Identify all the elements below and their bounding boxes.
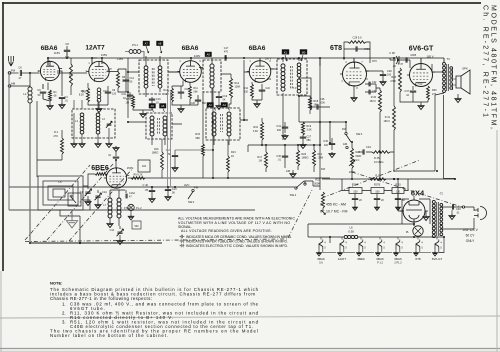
wire V2 plate to IF — [107, 69, 129, 92]
resistor R8 22K grid — [95, 173, 107, 176]
transformer T3 output — [443, 62, 446, 92]
oscillator coil L8 — [117, 198, 121, 218]
wire heater link — [420, 250, 431, 253]
wire y179 bus — [322, 178, 455, 180]
heater 6BA6 pins — [396, 242, 400, 247]
capacitor C38 coupling — [396, 56, 398, 64]
label 105-120V 60CY ONLY — [462, 228, 478, 243]
adjust tag A10 — [282, 50, 289, 55]
resistor R19 3.6K — [302, 122, 305, 135]
capacitor C1 47 — [11, 72, 19, 74]
capacitor C40 40 — [397, 194, 399, 199]
tube V5 6T8 — [340, 62, 369, 86]
wire coil box to top — [74, 100, 98, 109]
resistor R16b 1MEG — [161, 139, 163, 152]
heater 6BA6 pins — [378, 242, 382, 247]
capacitor C10 1K — [127, 95, 133, 96]
ground heater 6V6-GT — [434, 250, 436, 252]
inductor T5 secondary — [163, 116, 167, 136]
switch SW2 on volume — [462, 206, 464, 208]
ground 6X4 area — [423, 215, 429, 221]
wire T7 leads — [212, 98, 248, 145]
adjust tag T7 left — [207, 103, 214, 108]
wire B+ drop left — [48, 52, 444, 66]
capacitor C9 120 — [105, 92, 111, 93]
label AVC — [184, 183, 190, 187]
trimmer C13A — [95, 193, 102, 200]
terminal FM — [8, 72, 11, 75]
wire T6 leads — [199, 58, 231, 98]
adjust tag A7 — [143, 41, 150, 46]
wire 6V6 plate to T3 — [432, 64, 444, 72]
label 565 — [82, 91, 87, 94]
capacitor C30b 100 — [331, 138, 333, 143]
tuning gang link bottom horizontal — [25, 239, 288, 242]
wire feedback loop — [344, 42, 370, 63]
capacitor C30 — [282, 156, 288, 157]
wire gray pair below T5 — [168, 92, 171, 187]
adjust arrows T7 — [214, 108, 230, 111]
capacitor C39 01 — [453, 204, 454, 209]
label T2 on gang link — [439, 192, 443, 196]
heater 6BA6 pins — [319, 242, 323, 247]
wire V4 grid — [244, 60, 250, 120]
wire FM junction down — [29, 73, 31, 243]
wire heater link — [323, 250, 336, 253]
resistor R17 audio — [265, 152, 268, 168]
capacitor C26 006 — [317, 104, 318, 109]
inductor P.S.1 on bus — [132, 43, 139, 47]
transformer T5 AM IF can — [146, 113, 172, 139]
ground V2 cathode network — [88, 99, 108, 107]
wire V2 grid left — [57, 72, 87, 74]
ground heater 6BE6 — [358, 250, 360, 252]
adjust tag T7 right — [221, 103, 228, 108]
pilot lamp PL2 — [128, 204, 134, 210]
wire output right loop — [394, 93, 455, 179]
wire heater link — [400, 250, 412, 253]
capacitor C33 — [369, 90, 370, 95]
wire 6X4 box — [402, 199, 430, 224]
wire x213 vertical — [212, 88, 214, 178]
ground V3 cathode — [172, 99, 198, 107]
wire 6T8 right — [365, 84, 380, 92]
wire AM lead — [11, 85, 30, 87]
ground heater 12AT7 — [339, 250, 341, 252]
resistor R16 3.3K — [261, 122, 264, 140]
page crease line — [0, 316, 500, 318]
switch SW1 wafer C FM-AM — [342, 127, 347, 131]
resistor R33 box — [392, 188, 404, 194]
tube V7 6BE6 — [104, 168, 129, 188]
capacitor C31 400 — [282, 127, 288, 128]
resistor R20 1MEG — [297, 150, 300, 166]
capacitor C37 10 electrolytic — [412, 86, 414, 90]
wire under V3 to C21 — [175, 150, 213, 152]
wire heater link — [344, 250, 355, 253]
wire T5 leads — [128, 122, 182, 145]
core T5 — [158, 118, 160, 134]
page bottom rule — [0, 348, 500, 350]
tuning gang link left diagonal 3 — [69, 168, 133, 241]
resistor R30 270 — [427, 86, 430, 100]
legend electrolytic symbol line — [180, 244, 185, 247]
wire loop leads — [60, 186, 90, 243]
label C36 005 — [410, 54, 434, 59]
page left lower edge — [0, 271, 2, 352]
inductor T4 primary — [144, 66, 148, 88]
capacitor C25 feedback — [356, 46, 357, 51]
tube V1 6BA6 — [38, 61, 62, 80]
ground V1 cathode — [43, 99, 50, 104]
wire bus bottom — [30, 242, 162, 244]
resistor R13 cathode — [182, 81, 184, 87]
inductor L6 0.38 — [348, 226, 354, 234]
ground 6T8 below — [353, 85, 355, 96]
switch SW1 rear wafer box — [68, 193, 81, 206]
wire AVC bus — [9, 186, 296, 188]
capacitor C13A 47 — [126, 194, 127, 199]
resistor R12 100K — [230, 74, 232, 78]
resistor R26 150K — [379, 90, 382, 112]
tuning gang link left diagonal 1 — [25, 165, 90, 240]
inductor T7 primary — [212, 112, 216, 136]
adjust arrows T5 — [152, 109, 165, 113]
wire 6V6 grid — [390, 58, 410, 68]
oscillator coil L7 — [108, 198, 112, 218]
wire heater ends — [321, 237, 437, 240]
resistor R7 1M — [132, 96, 135, 108]
inductor T7 secondary — [227, 112, 231, 136]
wire B+ bus 115V — [48, 57, 444, 59]
resistor R14 cathode — [251, 84, 254, 98]
inductor T8 secondary lower — [297, 79, 301, 93]
capacitor C35B 20 — [376, 194, 378, 199]
capacitor C21 5K — [174, 152, 176, 155]
resistor R21 volume — [313, 150, 316, 166]
wire mid audio — [320, 58, 330, 186]
transformer T6 single IF can — [203, 60, 221, 92]
wire heater top — [308, 224, 414, 237]
wire T8 leads — [270, 58, 307, 140]
capacitor C16 — [149, 99, 155, 100]
wire osc network — [110, 190, 126, 226]
capacitor C27 680 — [300, 137, 306, 138]
adjust tag T5 left — [149, 104, 156, 109]
capacitor C20 500 — [195, 100, 201, 101]
choke CH-1 — [97, 88, 101, 102]
ground IF1 base — [133, 104, 152, 112]
wire det out — [299, 78, 330, 122]
capacitor C3 screen — [57, 71, 62, 96]
wire heater link — [363, 250, 374, 253]
resistor R28 470K — [399, 68, 402, 92]
resistor R15 68K — [202, 92, 204, 144]
heater 6BE6 pins — [359, 242, 363, 247]
resistor R2b 27K — [61, 138, 64, 154]
resistor R31 180K — [393, 106, 396, 130]
wire audio line y145 — [248, 122, 320, 152]
capacitor C18b on AVC — [167, 187, 169, 189]
resistor R2 osc grid — [70, 58, 72, 64]
capacitor C28 100 — [365, 71, 383, 74]
tuning gang link to SW2 power — [352, 172, 462, 207]
legend paper symbol line — [180, 239, 185, 242]
core T4 — [152, 68, 154, 86]
tube V8 6X4 — [403, 200, 425, 222]
ground big left — [66, 218, 77, 228]
transformer T4 FM IF can — [139, 60, 168, 94]
wire R25 leads — [366, 151, 394, 153]
resistor R11 068 — [189, 86, 192, 99]
capacitor C35A 20 — [354, 194, 356, 199]
resistor R5 8.2K — [87, 83, 89, 88]
trimmer C5A — [85, 189, 92, 196]
inductor T4 secondary — [158, 66, 162, 88]
note block — [50, 281, 259, 339]
adjust tag T5 right — [160, 104, 167, 109]
wire left verticals — [37, 101, 62, 177]
note voltages text — [178, 217, 295, 233]
inductor T6 winding — [210, 64, 214, 88]
tube V4 6BA6 — [247, 61, 274, 83]
transformer T7 AM IF2 can — [206, 108, 240, 140]
transformer T1 power — [432, 200, 435, 237]
label 97V — [372, 59, 377, 63]
loop antenna L5 inner — [48, 186, 73, 200]
core T7 — [221, 114, 223, 132]
ground AM detector — [286, 169, 291, 173]
loop antenna L5 middle — [43, 181, 78, 205]
loop antenna L5 outer — [38, 176, 83, 210]
resistor R22 300K — [319, 186, 321, 190]
heater 6V6-GT pins — [435, 242, 439, 247]
ground heater 6BA6 — [318, 250, 320, 252]
ground 6V6 cathode — [400, 92, 428, 104]
ground heater 6T8 — [415, 250, 417, 252]
capacitor C19 5K — [218, 92, 220, 96]
heater 6T8 pins — [416, 242, 420, 247]
title MODELS 480TFM 481TFM — [490, 5, 497, 129]
wire T1 to plug — [441, 207, 474, 229]
resistor R18 180 — [309, 97, 312, 110]
resistor R25 10MEG — [372, 151, 390, 154]
resistor R32 in B+ line — [370, 178, 386, 181]
inductor T5 primary — [150, 116, 154, 136]
capacitor C16b — [406, 57, 407, 62]
inductor L1 — [28, 87, 32, 103]
capacitor C40 on AVC — [151, 187, 153, 190]
ground speaker — [457, 94, 459, 97]
resistor R9 6.2K in line — [131, 177, 145, 180]
tuning gang link left diagonal 2 — [47, 164, 113, 240]
resistor R1 V1 cathode — [49, 90, 52, 101]
inductor T8 secondary upper — [297, 63, 301, 77]
legend mica symbol line — [180, 235, 185, 238]
inductor L3 — [96, 113, 100, 134]
tube V3 6BA6 — [177, 61, 204, 83]
wire T4 leads — [128, 56, 180, 97]
capacitor C12 top w ground — [115, 160, 117, 170]
plug P1 — [474, 207, 487, 220]
capacitor C22 — [259, 90, 265, 91]
wire 6X4 output B+ — [398, 179, 414, 226]
resistor R27A box — [349, 188, 362, 194]
resistor R27B box — [371, 188, 384, 194]
tuning gang link cross — [322, 160, 420, 198]
speaker SPK — [462, 67, 468, 71]
wire y178 return — [128, 177, 330, 179]
capacitor C32 — [369, 82, 370, 87]
pilot lamp PL1 — [413, 226, 423, 236]
capacitor C15 pad — [132, 221, 141, 229]
tone network resistors R27A R27B — [352, 184, 401, 187]
transformer T8 ratio detector can — [277, 59, 307, 95]
antenna symbol — [9, 56, 14, 66]
coil box FM front end — [72, 109, 115, 138]
wire heater bus — [308, 236, 444, 238]
adjust tag A11 — [300, 50, 307, 55]
page left border line — [2, 2, 4, 271]
loop antenna core box — [53, 189, 65, 197]
wire V3 grid — [168, 71, 180, 73]
title Ch. RE-277 RE-277-1 — [482, 5, 489, 117]
wire tone net — [342, 179, 408, 191]
tube V2 12AT7 — [86, 61, 111, 81]
page top border line — [2, 2, 481, 4]
tube V6 6V6-GT — [407, 64, 435, 87]
capacitor C34 — [363, 149, 364, 154]
switch SW.1 wafer B — [194, 186, 199, 190]
ground row under coil box — [74, 113, 109, 142]
label IF frequencies — [320, 203, 348, 214]
ground osc — [107, 222, 113, 228]
resistor R24 500K volume — [351, 148, 354, 168]
capacitor C2 V1 cathode — [47, 83, 49, 91]
ground V4 cathode — [252, 97, 262, 102]
capacitor C8 100 plate bypass — [64, 50, 70, 51]
inductor L2 — [80, 113, 84, 134]
tuning gang link to SW1 — [288, 190, 312, 238]
page right edge line — [496, 130, 498, 352]
trimmer C13B — [117, 229, 124, 236]
resistor R23 470K feedback — [348, 41, 366, 44]
capacitor C18 cathode — [178, 92, 184, 93]
capacitor C11 50 — [123, 80, 129, 81]
label 180V — [349, 170, 355, 174]
resistor R13b 1K — [227, 156, 230, 172]
wire grid line y210 — [9, 209, 255, 211]
adjust tag A9 — [205, 52, 212, 57]
page bottom edge — [0, 350, 500, 352]
trimmer C4 — [106, 121, 112, 127]
wire heater link — [382, 250, 392, 253]
core T8 — [290, 66, 292, 89]
capacitor C17 470 on bus — [225, 55, 226, 61]
switch SW.1 wafer A — [295, 187, 297, 189]
heater 12AT7 pins — [340, 242, 344, 247]
ground heater 6BA6 — [377, 250, 379, 252]
adjust tag A8 — [157, 41, 164, 46]
wire V1 grid — [30, 58, 48, 73]
wire left AVC vertical — [8, 73, 10, 210]
ground heater 6BA6 — [395, 250, 397, 252]
resistor R6 22K — [117, 69, 119, 72]
wire R26 down — [379, 120, 381, 179]
wire 6BE6 grid to loop — [88, 174, 107, 186]
terminal AM — [8, 85, 11, 88]
wire junction x128 — [127, 58, 129, 118]
wire heater tap — [329, 237, 331, 243]
capacitor C2 104 box — [138, 160, 150, 172]
inductor T8 primary — [281, 64, 285, 91]
